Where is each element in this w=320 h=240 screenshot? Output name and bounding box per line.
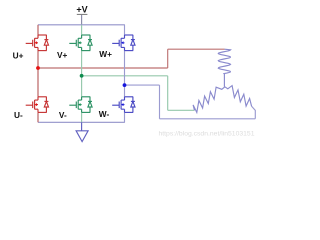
transistor Q2 (V+ phase MOSFET) xyxy=(69,35,90,51)
wire Q4 source to ground rail xyxy=(37,112,39,122)
svg-text:https://blog.csdn.net/lin51031: https://blog.csdn.net/lin5103151 xyxy=(159,131,255,138)
transistor Q4 substrate arrow xyxy=(35,103,37,106)
transistor Q2 substrate arrow xyxy=(78,41,80,44)
transistor Q6 (W- phase MOSFET) xyxy=(112,97,133,113)
inductor winding B (phase V, left coil) xyxy=(193,87,225,113)
svg-text:W+: W+ xyxy=(99,49,112,59)
transistor Q5 (V- phase MOSFET) xyxy=(69,97,90,113)
diode D5 (body diode of Q5) xyxy=(88,97,92,113)
power +V underline xyxy=(77,13,88,15)
wire +V stub xyxy=(81,15,83,25)
ground symbol xyxy=(76,131,88,142)
wire phase W right riser to winding C xyxy=(252,106,256,119)
svg-text:V-: V- xyxy=(59,110,67,120)
svg-text:+V: +V xyxy=(76,5,87,15)
ground stub xyxy=(81,122,83,131)
wire phase U top run to winding A xyxy=(168,48,225,50)
transistor Q1 (U+ phase MOSFET) xyxy=(26,35,47,51)
wire Q1 drain stub (U+) xyxy=(37,25,39,35)
svg-text:V+: V+ xyxy=(57,50,68,60)
wire phase V output run xyxy=(82,75,168,77)
wire Q2 drain stub (V+) xyxy=(81,25,83,35)
transistor Q1 substrate arrow xyxy=(35,41,37,44)
wire phase W output run xyxy=(125,84,160,86)
wire Q2 source to node V xyxy=(81,51,83,76)
wire phase V drop xyxy=(167,76,169,111)
wire phase V bottom run to winding B xyxy=(168,109,195,111)
inductor winding A (phase U, vertical coil) xyxy=(218,49,230,74)
transistor Q6 substrate arrow xyxy=(121,103,123,106)
wire Q3 source to node W xyxy=(124,51,126,86)
inductor winding C (phase W, right coil) xyxy=(225,86,252,107)
wire node W to Q6 drain xyxy=(124,85,126,97)
diode D3 (body diode of Q3) xyxy=(131,35,135,51)
node U junction dot xyxy=(36,66,40,70)
wire Q6 source to ground rail xyxy=(124,112,126,122)
svg-text:U-: U- xyxy=(14,110,23,120)
transistor Q3 (W+ phase MOSFET) xyxy=(112,35,133,51)
diode D4 (body diode of Q4) xyxy=(44,97,48,113)
wire Q3 drain stub (W+) xyxy=(124,25,126,35)
transistor Q4 (U- phase MOSFET) xyxy=(26,97,47,113)
diode D1 (body diode of Q1) xyxy=(44,35,48,51)
transistor Q3 substrate arrow xyxy=(121,41,123,44)
node W junction dot xyxy=(123,83,127,87)
diode D2 (body diode of Q2) xyxy=(88,35,92,51)
wire Q5 source to ground rail xyxy=(81,112,83,122)
diode D6 (body diode of Q6) xyxy=(131,97,135,113)
wire winding A to star point xyxy=(223,74,225,87)
wire +V top rail xyxy=(38,24,125,26)
wire node V to Q5 drain xyxy=(81,76,83,97)
node V junction dot xyxy=(80,74,84,78)
wire phase U riser xyxy=(167,49,169,68)
wire phase W drop xyxy=(159,85,161,119)
wire phase W bottom run xyxy=(160,118,256,120)
wire phase U output run xyxy=(38,67,168,69)
transistor Q5 substrate arrow xyxy=(78,103,80,106)
svg-text:W-: W- xyxy=(99,109,110,119)
wire node U to Q4 drain xyxy=(37,68,39,97)
wire ground bottom rail xyxy=(38,121,125,123)
wire Q1 source to node U xyxy=(37,51,39,68)
svg-text:U+: U+ xyxy=(13,50,24,60)
